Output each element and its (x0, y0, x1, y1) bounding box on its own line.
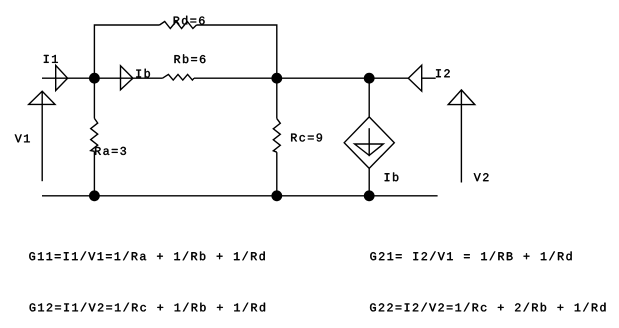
node B (271, 73, 282, 84)
node F (364, 190, 375, 201)
source internal arrow (355, 128, 384, 156)
label Ib (136, 69, 150, 78)
label Ib source (385, 173, 399, 182)
equation G11 (29, 252, 264, 261)
label Rd=6 (174, 16, 205, 25)
voltage arrow V2 (448, 90, 475, 183)
node C (364, 73, 375, 84)
resistor Ra (91, 78, 98, 196)
label V2 (474, 173, 489, 181)
label Ra=3 (95, 147, 126, 155)
wire source bottom (368, 168, 370, 195)
dependent current source diamond (344, 117, 394, 168)
wire main right (277, 77, 436, 79)
wire source top (368, 78, 370, 117)
equation G22 (370, 303, 605, 312)
wire top rail left (94, 25, 159, 78)
wire bottom rail (42, 195, 438, 197)
node D (89, 190, 100, 201)
current arrow I1 (56, 65, 68, 90)
label I1 (44, 55, 58, 63)
equation G21 (370, 252, 571, 261)
equation G12 (30, 303, 265, 312)
label I2 (436, 69, 450, 77)
label Rc=9 (291, 134, 322, 142)
node E (271, 190, 282, 201)
wire main left (42, 77, 94, 79)
resistor Rb (163, 74, 195, 80)
resistor Rc (273, 78, 280, 196)
wire main middle (94, 77, 276, 79)
current arrow I2 (408, 65, 421, 91)
label V1 (15, 135, 30, 143)
wire top rail right (197, 25, 277, 78)
current arrow Ib (121, 66, 133, 90)
voltage arrow V1 (29, 91, 55, 181)
label Rb=6 (175, 54, 206, 63)
node A (89, 73, 100, 84)
resistor Rd (160, 22, 197, 29)
